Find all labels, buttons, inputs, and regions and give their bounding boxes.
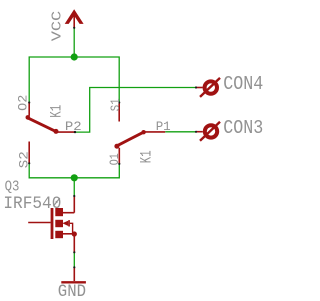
svg-text:GND: GND [58, 282, 86, 301]
svg-text:CON3: CON3 [223, 117, 263, 139]
svg-text:P2: P2 [65, 120, 82, 134]
svg-text:K1: K1 [48, 105, 66, 118]
svg-text:S1: S1 [108, 98, 123, 111]
svg-text:P1: P1 [156, 120, 171, 134]
svg-text:CON4: CON4 [223, 73, 263, 95]
svg-text:VCC: VCC [50, 11, 65, 42]
svg-text:K1: K1 [138, 150, 156, 163]
svg-text:O2: O2 [15, 95, 30, 111]
svg-text:S2: S2 [16, 151, 31, 168]
svg-text:O1: O1 [107, 153, 122, 165]
svg-text:IRF540: IRF540 [3, 194, 61, 214]
